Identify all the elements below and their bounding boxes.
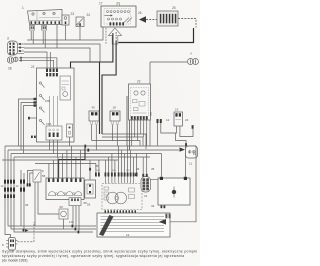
wire stub r3: [104, 160, 106, 173]
svg-text:Sygnał dźwiękowy, silnik wycie: Sygnał dźwiękowy, silnik wycieraczek szy…: [2, 250, 197, 254]
wire pair drop b: [23, 192, 25, 229]
wire pair drop a: [20, 192, 22, 226]
left connector pins row 1: [4, 180, 15, 184]
switch 24: [76, 17, 84, 27]
washer pump 35: [141, 174, 151, 192]
dash-dot wire from 17: [105, 28, 107, 44]
wire stub 21 left c: [24, 106, 38, 154]
wire 22 pin4: [140, 120, 142, 134]
unit 21 contact b: [39, 94, 44, 100]
junction pin right: [185, 143, 187, 146]
wire trunk x150: [149, 62, 151, 146]
connector arrow under 17: [109, 28, 122, 44]
arrow into lamp connector: [180, 147, 186, 151]
pins at 21 bottom left b: [34, 136, 36, 138]
wire stub 21 left a: [19, 99, 38, 146]
pin suppressor wire: [89, 168, 91, 171]
wire left drop a: [4, 146, 6, 179]
unit 21 top pin cluster: [46, 69, 58, 77]
thick wire from 17 down main trunk: [102, 41, 116, 134]
junction pin bus b: [87, 149, 89, 152]
wire from 1 pin b: [32, 31, 34, 44]
washer pump connector 45: [89, 111, 99, 125]
svg-text:24: 24: [185, 118, 189, 122]
svg-text:23: 23: [71, 12, 75, 16]
svg-text:60: 60: [60, 205, 64, 209]
pin pair lower: [27, 183, 29, 186]
svg-text:12: 12: [166, 118, 170, 122]
dash-dot wire arrow to 25: [146, 19, 157, 21]
second pin pair: [20, 180, 25, 192]
wire 22 pin2: [134, 120, 136, 137]
wire 15A a: [49, 140, 51, 150]
wire bus y150: [8, 149, 179, 151]
wire left drop c: [10, 154, 12, 180]
wire feed to 5: [150, 61, 187, 63]
svg-text:65: 65: [84, 201, 88, 205]
wire left drop d: [13, 157, 15, 179]
svg-text:45: 45: [92, 106, 96, 110]
wire 19a right: [180, 126, 193, 137]
junction tick left of pump: [135, 173, 137, 176]
wire 34 left terminal: [160, 154, 162, 177]
wire stub r5: [111, 154, 113, 173]
pins at 21 bottom left: [31, 136, 33, 138]
wire 19a left: [161, 123, 177, 133]
svg-text:3: 3: [7, 37, 9, 41]
wire stub r8: [121, 150, 123, 173]
pin stub 21 left: [28, 117, 30, 120]
washer pump connector 18: [110, 111, 120, 125]
svg-text:34: 34: [151, 204, 155, 208]
wire pin links: [5, 184, 14, 188]
wire 22 pin6: [146, 120, 148, 146]
lamp connector lower right: [186, 146, 198, 158]
wire 22 pin1: [131, 120, 133, 146]
wire 60 down: [63, 219, 65, 229]
wire stub r4: [107, 157, 109, 173]
connector 3: [8, 41, 25, 55]
wire 65 c: [78, 206, 80, 231]
wire 6 a: [34, 182, 36, 226]
wire pair left of 22 a: [126, 96, 128, 146]
pins under 31: [105, 210, 137, 213]
svg-text:35: 35: [151, 167, 155, 171]
wire stub 21 left b: [21, 103, 37, 151]
wire 22 pin5: [143, 120, 145, 137]
svg-text:(do modeli 1993): (do modeli 1993): [2, 259, 27, 263]
svg-text:26: 26: [138, 11, 142, 15]
wire pump b: [146, 154, 148, 174]
wire from 1 pin c: [42, 31, 44, 44]
dash-dot wire from horn: [18, 241, 35, 243]
wire stub r12: [133, 157, 135, 173]
wire 28 lower: [19, 60, 54, 73]
front wiper motor 58: [46, 178, 84, 200]
wire 21 internal b: [53, 96, 55, 126]
wire stub r11: [130, 150, 132, 173]
wire 58 p6: [70, 146, 72, 178]
wire 65 a: [72, 206, 74, 225]
thick wire from 17 to unit 15B: [71, 33, 113, 69]
svg-text:spryskiwaczy szyby przedniej i: spryskiwaczy szyby przedniej i tylnej, o…: [2, 254, 184, 258]
wire 15A c: [57, 140, 59, 157]
wire stub r6: [114, 160, 116, 173]
pins row above rear wiper: [95, 173, 138, 177]
pin pair lower b: [29, 183, 31, 186]
combined wiper unit box 21: [37, 68, 75, 142]
unit 21 contact a: [39, 82, 44, 88]
suppressor box: [85, 180, 96, 198]
thick wire bus to motor 58: [59, 146, 85, 178]
wire stub r9: [124, 154, 126, 173]
wire bus y134: [102, 134, 146, 149]
wire bus y137: [102, 137, 143, 146]
wire horn feed: [5, 192, 11, 238]
connector 28: [7, 57, 21, 63]
wire from 1 pin a: [30, 31, 32, 40]
wire lower bus a: [8, 192, 96, 226]
wire from 23: [65, 25, 67, 40]
wire 58 p7: [75, 157, 77, 178]
wire bus y44: [24, 44, 100, 62]
thick feed wire top right: [118, 28, 193, 43]
wire 15A b: [53, 140, 55, 154]
svg-text:1: 1: [22, 6, 24, 10]
wire 58 p8: [79, 150, 81, 178]
wire from 24: [79, 27, 81, 41]
wire pair left of 22 b: [129, 96, 131, 150]
wire pair to switch 6 b: [30, 173, 33, 186]
wire bus y160: [2, 159, 118, 161]
dash-dot wire to connector 25: [178, 19, 196, 28]
svg-text:18: 18: [113, 106, 117, 110]
wire 28 upper: [19, 58, 57, 73]
pin marks at 21 left: [34, 98, 37, 107]
svg-text:28: 28: [8, 67, 12, 71]
wire left drop b: [7, 150, 9, 179]
wire pump a: [142, 157, 144, 174]
wire 58 p3: [57, 157, 59, 178]
pin on trunk x150: [149, 112, 151, 116]
control box 34: [158, 177, 190, 205]
svg-text:24: 24: [87, 13, 91, 17]
junction pins lower-left bus: [23, 229, 25, 232]
svg-text:31: 31: [144, 194, 148, 198]
pins 12 mid right: [157, 119, 162, 123]
wire right edge drop: [166, 146, 196, 222]
svg-text:30B: 30B: [112, 170, 116, 172]
wire links pins to 31: [105, 177, 133, 184]
wire lower bus c: [14, 192, 93, 232]
connector 19a right: [174, 112, 183, 126]
wire pump to 34: [151, 179, 159, 181]
wire bus to 21 pin: [49, 52, 51, 69]
horn 8: [6, 238, 17, 251]
wire 45 right: [95, 125, 97, 150]
wire pair to switch 6 a: [28, 171, 34, 187]
svg-text:V: V: [190, 52, 192, 56]
battery feed connector 5: [188, 59, 199, 65]
svg-text:46: 46: [136, 167, 140, 171]
wire from 44: [69, 137, 71, 146]
wire suppressor up: [89, 160, 91, 180]
wiper stage 15B: [60, 76, 71, 100]
svg-text:30A: 30A: [96, 169, 100, 172]
heated rear window 19: [97, 213, 171, 237]
junction pin bus a: [84, 145, 86, 148]
junction arrow lower-left bus: [25, 229, 29, 232]
svg-text:21: 21: [31, 65, 35, 69]
unit 21 contact d: [39, 119, 44, 125]
wire bus y140: [92, 141, 140, 146]
wire 6 b: [38, 182, 59, 214]
intermittent relay 22: [129, 84, 151, 120]
svg-text:17: 17: [99, 2, 103, 6]
svg-text:19: 19: [175, 108, 179, 112]
wire stub r2: [98, 160, 100, 173]
wire pins12 b: [192, 125, 194, 129]
dash-dot wire up to switch 6: [33, 222, 35, 242]
wire 21 internal a: [49, 96, 51, 126]
connector block 25: [157, 11, 178, 26]
wire pair links: [21, 170, 24, 188]
wire 18 left: [112, 125, 114, 141]
wire 58 p5: [66, 150, 68, 178]
wire 58 p4: [61, 154, 63, 179]
wire from 1 right pin down to unit 21: [56, 25, 58, 49]
arrow into heated window: [159, 219, 166, 225]
svg-text:11: 11: [189, 162, 192, 166]
svg-text:19: 19: [126, 233, 130, 237]
wire 58 p1: [48, 164, 50, 179]
svg-text:15A: 15A: [46, 122, 51, 126]
svg-text:1B: 1B: [87, 203, 90, 207]
unit 21 contact c: [39, 107, 44, 113]
wire bus y52: [24, 52, 47, 69]
left connector pins row 2: [4, 188, 15, 192]
wire bus y153: [11, 153, 162, 155]
svg-text:30C: 30C: [126, 170, 130, 172]
wire lower bus b: [11, 192, 96, 229]
pins under 34: [161, 205, 163, 208]
svg-text:22: 22: [137, 80, 141, 84]
thermo switch 44: [67, 124, 73, 137]
switch 6: [33, 170, 41, 182]
wire 58 p2: [52, 160, 54, 178]
wire 34 right terminal: [184, 146, 186, 177]
rear wiper motor 31 (dashed): [102, 184, 142, 210]
wire bus y40: [27, 27, 103, 40]
svg-text:25: 25: [172, 6, 176, 10]
wire stub r7: [118, 146, 120, 173]
wire 21 internal c: [57, 96, 59, 126]
wire bus y146: [5, 145, 196, 147]
relay 23: [62, 15, 69, 25]
svg-text:36: 36: [25, 203, 29, 207]
ignition/column switch 17: [101, 3, 136, 27]
wire 45 left: [91, 125, 93, 141]
svg-text:58: 58: [42, 174, 46, 178]
lamp 60: [59, 209, 68, 219]
dash-dot wire in arrow shaft: [115, 32, 117, 41]
wire right elbow to 34: [176, 133, 187, 146]
wire from 1 pin d: [44, 31, 46, 48]
wire stub r10: [127, 146, 129, 173]
junction pins lower bus: [72, 225, 80, 234]
regulator/relay unit 1: [28, 10, 63, 31]
wire stub into 21 left: [30, 117, 37, 119]
wire trunk pair partner: [99, 62, 101, 134]
wire bus y48: [24, 48, 90, 62]
arrow to fuse box: [139, 16, 146, 22]
wire stub r13: [136, 154, 138, 173]
wire bus y163: [35, 163, 96, 165]
wire 22 pin3: [137, 120, 139, 141]
park switch 65: [69, 198, 81, 206]
wire 65 b: [75, 206, 77, 228]
wire bus y157: [14, 156, 150, 158]
left connector pins row 3: [4, 194, 15, 198]
wire stub r1: [95, 164, 97, 173]
connector 15A: [46, 126, 62, 140]
wire pins12 a: [157, 123, 159, 146]
svg-text:15B: 15B: [45, 99, 50, 103]
wire 18 right: [116, 125, 118, 146]
